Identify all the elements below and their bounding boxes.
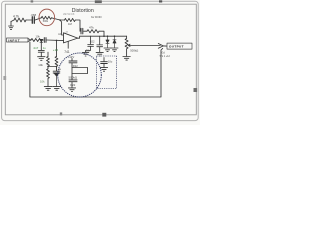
- wire feedback to output rail: [99, 31, 104, 36]
- wire: [35, 18, 41, 20]
- ground: [96, 52, 103, 56]
- svg-text:10k: 10k: [38, 63, 43, 67]
- diode D2: [113, 36, 116, 47]
- junction diode D1: [107, 35, 109, 37]
- op-amp supply stub: [67, 41, 69, 48]
- resistor R1 4.7k: [14, 18, 26, 22]
- OUTPUT port box: [167, 43, 192, 49]
- resistor R5 10k (vertical): [47, 57, 50, 67]
- svg-text:500kΩ: 500kΩ: [69, 76, 78, 80]
- junction diode D2: [114, 35, 116, 37]
- wire bias node: [48, 66, 57, 68]
- blue mod ellipse: [58, 53, 102, 97]
- capacitor C2 (feedback): [81, 28, 83, 34]
- capacitor C8: [69, 61, 77, 63]
- svg-text:+12V: +12V: [68, 55, 75, 59]
- svg-text:INPUT: INPUT: [8, 38, 20, 42]
- resistor R4 10k: [31, 39, 42, 42]
- svg-text:500kΩ: 500kΩ: [130, 49, 138, 53]
- capacitor C10 10u: [101, 62, 108, 64]
- wire: [71, 63, 73, 80]
- junction: [47, 66, 49, 68]
- wire: [26, 19, 32, 21]
- capacitor C9: [69, 80, 77, 82]
- svg-text:+12: +12: [53, 48, 59, 52]
- ground: [82, 52, 88, 56]
- ground (input top chain): [9, 22, 14, 30]
- ground: [100, 68, 107, 72]
- svg-text:OUTPUT: OUTPUT: [169, 45, 184, 49]
- wire jack sleeve / ground loop: [30, 42, 163, 97]
- ground: [38, 57, 45, 61]
- frame tick bottom left: [60, 112, 62, 115]
- output jack connector: [158, 44, 163, 49]
- mod chain in dashed rect: wire: [103, 58, 105, 62]
- svg-text:R22: R22: [73, 64, 78, 68]
- capacitor C4 to ground: [38, 42, 44, 56]
- capacitor C5 1u electrolytic: [53, 67, 60, 74]
- junction bias: [56, 40, 58, 42]
- wire: [42, 39, 43, 41]
- ground: [111, 48, 118, 52]
- pot wiper arrow: [128, 44, 160, 46]
- wire node A down to op-amp input: [60, 20, 64, 35]
- dashed mod rectangle: [97, 56, 117, 89]
- svg-text:50k: 50k: [86, 48, 91, 52]
- svg-text:LM741 IC8: LM741 IC8: [63, 14, 75, 16]
- ground: [44, 87, 52, 91]
- frame tick right edge: [194, 88, 198, 92]
- red mod ellipse: [39, 9, 55, 26]
- svg-text:4n7: 4n7: [33, 46, 38, 50]
- wire op-amp output rail: [78, 36, 127, 38]
- frame tick top right: [159, 0, 162, 2]
- wire: [60, 20, 80, 31]
- wire: [11, 20, 14, 22]
- capacitor C3: [44, 38, 46, 43]
- resistor R2 1M: [65, 18, 76, 21]
- svg-text:.068: .068: [31, 13, 37, 17]
- wire: [103, 64, 105, 67]
- svg-text:10k: 10k: [40, 80, 45, 84]
- junction: [56, 66, 58, 68]
- svg-text:741: 741: [64, 50, 70, 54]
- wire divider stub: [47, 52, 49, 56]
- svg-text:for DOD: for DOD: [91, 15, 102, 19]
- ground: [53, 87, 61, 91]
- ground: [123, 57, 130, 61]
- svg-text:10k: 10k: [36, 34, 41, 38]
- wire: [51, 18, 60, 20]
- frame tick bottom center: [102, 113, 106, 117]
- diode D3 to filter: [40, 39, 43, 42]
- diode D1: [106, 36, 109, 47]
- inductor L1 (circled mod): [41, 16, 51, 19]
- node A junction: [59, 19, 61, 21]
- resistor R3 47k (feedback): [87, 30, 99, 33]
- wire: [84, 30, 87, 32]
- capacitor C1 .068: [32, 17, 34, 23]
- potentiometer VR1 500k (volume): [125, 36, 128, 56]
- inner drawing frame: [5, 4, 196, 115]
- svg-text:4.7k: 4.7k: [13, 15, 19, 19]
- capacitor C7 4n chain: [97, 36, 103, 52]
- op-amp U1 741: [64, 33, 78, 43]
- frame tick top left: [31, 0, 34, 2]
- INPUT port box: [7, 38, 29, 42]
- svg-text:Sht 1 +12: Sht 1 +12: [160, 55, 171, 58]
- op-amp input stub +: [47, 39, 64, 42]
- svg-text:R22: R22: [70, 83, 75, 87]
- svg-text:1u: 1u: [43, 46, 46, 50]
- mod chain in blue ellipse: wire: [71, 58, 73, 60]
- svg-text:47k: 47k: [89, 25, 94, 29]
- frame tick left edge: [3, 76, 6, 80]
- svg-text:1u: 1u: [58, 67, 61, 71]
- svg-text:Distortion: Distortion: [72, 8, 94, 14]
- frame tick top center: [95, 0, 102, 3]
- wire: [71, 82, 73, 88]
- ground: [68, 88, 75, 92]
- resistor R7 10k (vertical): [47, 67, 50, 87]
- ground: [104, 48, 111, 52]
- svg-text:10u: 10u: [108, 60, 113, 64]
- wire bias divider: [56, 40, 58, 56]
- resistor R22 box (parallel): [72, 68, 88, 74]
- resistor R6 10k (vertical): [55, 57, 58, 67]
- outer page border: [2, 1, 199, 120]
- junction feedback/output: [103, 35, 105, 37]
- svg-text:.022: .022: [89, 40, 95, 44]
- capacitor C6 .022 chain: [86, 36, 94, 52]
- svg-text:500k: 500k: [43, 20, 49, 23]
